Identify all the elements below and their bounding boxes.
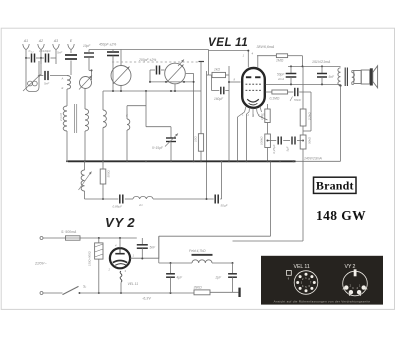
capacitor 0,89µF xyxy=(119,195,121,204)
wire to chassis xyxy=(210,291,238,293)
svg-text:0,1MΩ: 0,1MΩ xyxy=(270,97,280,101)
resistor 50kΩ (vertical) xyxy=(300,135,306,149)
resistor 390Ω xyxy=(194,290,210,295)
bus junction x171 xyxy=(170,160,172,162)
svg-text:-6,3V: -6,3V xyxy=(142,297,151,301)
fuse S 500mA xyxy=(43,237,66,239)
wire anode line y84.4 xyxy=(266,83,341,85)
wire coil to bandfilter xyxy=(66,89,68,106)
svg-text:A1: A1 xyxy=(23,39,28,43)
wire top bus y49.5 xyxy=(89,49,209,51)
tuning gang section 1 xyxy=(111,66,131,86)
oscillator coil winding 3 xyxy=(103,110,106,128)
padder trimmer 5÷15pF xyxy=(170,127,172,138)
svg-text:50µF: 50µF xyxy=(221,204,228,208)
hum coil (vertical) xyxy=(81,170,84,191)
filter choke (horizontal) xyxy=(133,196,153,199)
resistor 500Ω xyxy=(100,169,106,184)
svg-text:100kΩ: 100kΩ xyxy=(259,136,263,145)
divider node wire y140.5 xyxy=(268,140,277,142)
svg-text:VEL 11: VEL 11 xyxy=(294,264,310,270)
capacitor 53nF xyxy=(288,91,294,93)
wire junction dots antenna bus xyxy=(25,57,27,59)
wire y263 from cathode node xyxy=(158,236,160,263)
wire bottom line xyxy=(80,292,195,294)
wires tube pins to bus xyxy=(238,112,245,117)
svg-text:VEL 11: VEL 11 xyxy=(128,282,139,286)
svg-text:390Ω: 390Ω xyxy=(194,285,203,289)
wire tube top pin xyxy=(119,238,121,248)
resistor 1kΩ xyxy=(212,72,226,77)
wire gang2 bottom xyxy=(174,84,176,91)
wire second row xyxy=(40,58,42,64)
svg-text:S: 500mA: S: 500mA xyxy=(61,230,77,234)
switch S1 xyxy=(43,292,63,294)
capacitor 50µF xyxy=(214,195,216,204)
svg-text:A: A xyxy=(61,77,64,81)
wire tube top pins xyxy=(208,50,210,76)
wire cathode output xyxy=(130,257,159,259)
wire A2 down xyxy=(40,58,42,75)
bus junction x267.5 xyxy=(267,160,269,162)
capacitor 0,25µF xyxy=(277,137,279,145)
resistor 0,1MΩ (grid leak) xyxy=(266,91,272,93)
svg-text:0,25µF: 0,25µF xyxy=(272,144,276,153)
wire coil bottoms to bus xyxy=(66,131,68,161)
svg-text:2,2kΩ: 2,2kΩ xyxy=(308,112,312,121)
rectifier tube VY2 envelope xyxy=(110,248,130,268)
wire 100k to bus xyxy=(267,148,269,162)
resistor 100kΩ (vertical) xyxy=(265,134,271,148)
svg-text:500Ω: 500Ω xyxy=(107,169,111,177)
svg-text:50kΩ: 50kΩ xyxy=(308,136,312,144)
svg-text:10pF: 10pF xyxy=(83,44,91,48)
svg-text:151V/21mA: 151V/21mA xyxy=(312,60,331,64)
capacitor 5nF (tone) xyxy=(321,66,323,73)
resistor 10Ω (vertical) xyxy=(199,61,205,63)
svg-text:0,89µF: 0,89µF xyxy=(113,205,123,209)
VEL11 socket view xyxy=(294,271,318,295)
capacitor 450pF ±2% xyxy=(107,51,119,53)
wire under gang y81.9 xyxy=(150,81,194,83)
resistor 2,2kΩ (vertical) xyxy=(302,66,304,109)
wire feedback L xyxy=(145,91,147,127)
wire ballast down xyxy=(98,259,100,293)
bandfilter coil winding 1 xyxy=(63,106,67,131)
svg-text:2mA: 2mA xyxy=(277,77,284,81)
chassis ground bar xyxy=(238,288,240,297)
wire y199 right xyxy=(153,198,214,200)
svg-text:10/100pF: 10/100pF xyxy=(39,49,51,53)
capacitor 160µF xyxy=(211,75,213,91)
wire tube grid pin 8 xyxy=(229,81,241,83)
svg-text:Brandt: Brandt xyxy=(316,178,354,192)
output transformer secondary xyxy=(352,73,355,83)
wire y199 left xyxy=(85,198,119,200)
wire transformer bottom to B+ bus xyxy=(339,85,341,87)
mains terminal top xyxy=(40,237,43,240)
svg-text:450pF ±2%: 450pF ±2% xyxy=(99,43,116,47)
wire antenna bus y58 xyxy=(25,53,27,58)
capacitor 10pF xyxy=(84,52,94,54)
svg-text:VY 2: VY 2 xyxy=(105,215,135,230)
wire to y199 xyxy=(84,191,86,199)
wire x311 down xyxy=(310,92,312,131)
wire gang1 to grid line xyxy=(120,86,122,92)
variable inductor (trimmer) xyxy=(80,77,92,89)
svg-text:5nF: 5nF xyxy=(44,82,49,86)
capacitor 5nF (earth) xyxy=(65,54,77,56)
bus junction x237.5 xyxy=(237,160,239,162)
wire y263 right xyxy=(212,262,233,264)
bus junction x193.6 xyxy=(193,160,195,162)
tube anode plates xyxy=(246,76,251,78)
svg-text:5÷15pF: 5÷15pF xyxy=(152,146,164,150)
bus junction x103 xyxy=(102,160,104,162)
resistor 1MΩ (screen) xyxy=(276,54,287,58)
svg-text:200pF ±2%: 200pF ±2% xyxy=(138,58,156,62)
tube grids (dashed) xyxy=(246,83,262,85)
wire plate supply xyxy=(257,55,276,57)
svg-text:220V~: 220V~ xyxy=(34,261,47,266)
svg-text:10Ω: 10Ω xyxy=(194,136,198,142)
grid wire y91 xyxy=(103,90,201,92)
heater symbol xyxy=(120,271,122,282)
wire bus to volume network xyxy=(84,161,86,170)
VEL11 side contact xyxy=(287,271,292,276)
svg-text:5µF: 5µF xyxy=(286,146,290,151)
socket panel (black) xyxy=(261,256,383,305)
svg-text:1MΩ: 1MΩ xyxy=(276,59,284,63)
bus junction x127 xyxy=(126,160,128,162)
svg-text:53nF: 53nF xyxy=(294,98,302,102)
wire output B+ y66.4 xyxy=(288,65,341,67)
loudspeaker xyxy=(354,71,361,84)
bus junction x293.5 xyxy=(293,160,295,162)
svg-text:2×0,05: 2×0,05 xyxy=(59,112,63,122)
feedback coil (small) xyxy=(127,119,130,130)
bus junction x246.5 xyxy=(246,160,248,162)
Brandt logo box xyxy=(314,177,357,193)
capacitor 5nF (rectifier) xyxy=(141,238,143,244)
bus junction x67 xyxy=(66,160,68,162)
output transformer core xyxy=(344,68,346,87)
capacitor 4µF xyxy=(170,263,172,273)
bus junction x85 xyxy=(84,160,86,162)
svg-text:VY 2: VY 2 xyxy=(345,264,356,270)
VY2 socket view xyxy=(343,271,368,296)
wire long vertical x206.5 xyxy=(206,71,208,199)
svg-text:Feld 4,7kΩ: Feld 4,7kΩ xyxy=(189,249,206,253)
wire mains to tube xyxy=(80,237,137,239)
svg-text:5nF: 5nF xyxy=(150,246,157,250)
bus junction x201 xyxy=(200,160,202,162)
wire 2,2k to 50k xyxy=(302,126,304,135)
svg-text:E: E xyxy=(62,86,64,90)
wire heater to bottom line xyxy=(120,282,122,293)
capacitor C1,2 (A1 series) xyxy=(31,54,33,63)
bus junction x229 xyxy=(228,160,230,162)
rectifier cathode arc xyxy=(113,261,127,263)
field coil Feld 4,7kΩ xyxy=(192,260,212,263)
svg-text:50pF: 50pF xyxy=(277,73,285,77)
capacitor 50pF xyxy=(290,66,292,73)
svg-text:140V/23mA: 140V/23mA xyxy=(304,156,322,160)
capacitor 5µF xyxy=(291,137,293,145)
svg-text:S₁: S₁ xyxy=(83,285,86,289)
mains terminal bottom xyxy=(40,292,43,295)
svg-text:Ansicht auf die Röhrenfassunge: Ansicht auf die Röhrenfassungen von der … xyxy=(274,299,371,303)
svg-text:148 GW: 148 GW xyxy=(316,208,366,223)
svg-text:5nF: 5nF xyxy=(57,51,62,55)
svg-text:2µF: 2µF xyxy=(215,276,223,280)
svg-text:38V/6,6mA: 38V/6,6mA xyxy=(257,45,275,49)
svg-text:C₁,₂: C₁,₂ xyxy=(29,49,35,53)
wire tube bottom to divider xyxy=(267,104,269,109)
tube cathode arcs xyxy=(247,99,259,102)
svg-text:150Ω+900Ω: 150Ω+900Ω xyxy=(88,251,92,266)
tube VEL11 envelope xyxy=(242,68,265,108)
bus junction x146 xyxy=(145,160,147,162)
svg-text:160µF: 160µF xyxy=(214,97,224,101)
coil core (dashed) xyxy=(74,104,76,133)
wire 1k to tube node xyxy=(226,74,230,76)
wire between resistors xyxy=(267,123,269,135)
gang mechanical link (dashed) xyxy=(112,61,199,63)
antenna coil L1 (loop with adjustable core) xyxy=(26,58,39,92)
wire screen to B+ xyxy=(288,55,303,57)
bandfilter coil winding 2 xyxy=(85,109,89,131)
antenna A2 xyxy=(38,44,44,53)
capacitor 10/100pF (A2 series) xyxy=(45,54,47,63)
output transformer primary xyxy=(338,68,341,86)
wire screen feed riser xyxy=(302,149,304,241)
svg-text:A3: A3 xyxy=(53,39,58,43)
wire feedback coil xyxy=(127,105,146,107)
earth terminal E xyxy=(68,44,74,53)
svg-text:1MΩ: 1MΩ xyxy=(260,113,264,120)
bus junction x221.5 xyxy=(221,160,223,162)
B+ bus (thick) xyxy=(68,160,296,162)
bus junction x280 xyxy=(279,160,281,162)
capacitor 5nF (second row) xyxy=(44,71,46,80)
tuning gang section 2 xyxy=(165,63,186,84)
wire coil to series cap xyxy=(39,75,43,77)
tube bottom pin leads xyxy=(245,107,247,113)
antenna A3 xyxy=(53,44,59,53)
rectifier anode xyxy=(115,253,124,255)
antenna A1 xyxy=(23,44,29,53)
svg-text:VEL 11: VEL 11 xyxy=(208,37,248,49)
ballast resistor (hatched) xyxy=(98,238,100,243)
svg-text:1kΩ: 1kΩ xyxy=(214,68,220,72)
capacitor 2µF xyxy=(232,263,234,273)
wire cap to coil xyxy=(125,198,133,200)
resistor 1MΩ (vertical) xyxy=(265,109,270,123)
coil A/E (antenna winding) xyxy=(67,76,71,90)
field coil core xyxy=(192,254,213,256)
wire B+ riser xyxy=(270,161,272,236)
wire gang2 right xyxy=(186,73,194,75)
svg-text:A2: A2 xyxy=(38,39,43,43)
